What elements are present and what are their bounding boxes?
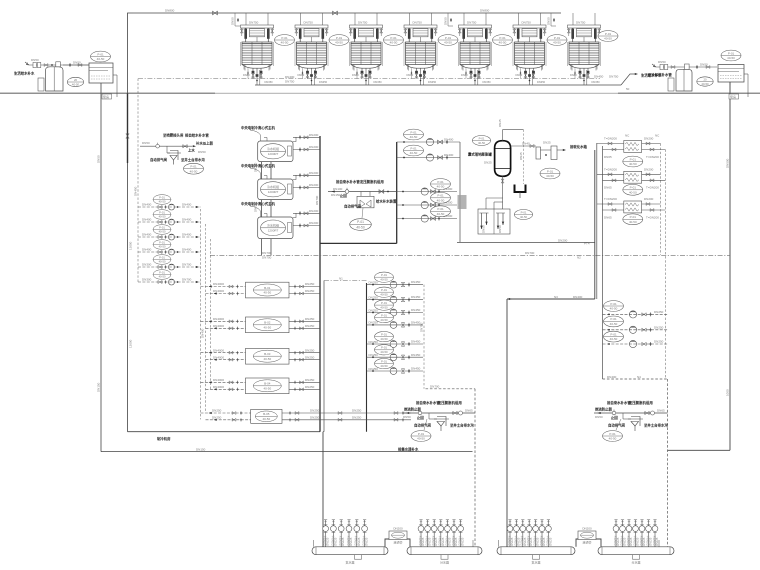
svg-text:DN250: DN250 [654,310,664,314]
pump row M6 [367,353,424,361]
svg-text:补水似上器: 补水似上器 [196,140,214,145]
svg-text:DN65: DN65 [465,409,473,413]
svg-text:囊式落地膨胀罐: 囊式落地膨胀罐 [467,152,492,157]
valve and meter right [453,411,457,414]
cooling tower CT-5 [458,13,491,85]
svg-text:DN700: DN700 [430,385,440,389]
svg-text:DN25: DN25 [484,161,492,165]
svg-text:DN300: DN300 [142,263,152,267]
svg-text:DN250: DN250 [305,282,315,286]
callout L4 [153,240,171,250]
pump row D [397,201,457,209]
svg-text:DN250: DN250 [310,415,320,419]
wire: mid pump column right dashed header [423,285,425,389]
svg-text:给水补水装置: 给水补水装置 [376,199,397,204]
valve on left riser [126,134,129,138]
svg-text:T=DN200: T=DN200 [646,155,659,159]
arrow at tower collection line end [635,73,638,75]
svg-text:DN100: DN100 [333,187,343,191]
wire: tank to riser [729,82,731,85]
salt tank right [668,78,674,91]
svg-text:生活给水补水: 生活给水补水 [641,73,662,78]
svg-text:DN450: DN450 [411,295,421,299]
wire: cooling tower return dash-dot line [138,78,600,80]
wire: machine room bottom header left [128,431,321,433]
HX B3 [246,348,290,364]
svg-text:40-50: 40-50 [263,357,271,361]
wire: soft water pipe to tank [63,64,89,66]
callout vessel [472,136,490,146]
svg-text:DN400: DN400 [182,218,192,222]
svg-text:DN300: DN300 [142,278,152,282]
callout H2 [623,184,643,195]
svg-text:DN50: DN50 [547,17,551,25]
wire: chiller U3 outlets [293,209,320,228]
wire: mid bottom link to right loop [457,241,595,243]
svg-text:DN750: DN750 [285,80,295,84]
svg-text:B-03: B-03 [264,352,271,356]
manifold M2 branch pipes [418,520,473,547]
callout CT-2 [329,35,349,46]
svg-text:自动排气阀: 自动排气阀 [344,204,362,209]
svg-text:DN50: DN50 [498,225,502,233]
callout row B [404,145,424,156]
pump row L3 [138,233,201,240]
callout soft water tank [91,51,111,62]
svg-text:DN200: DN200 [309,221,319,225]
softener tank right [676,69,692,91]
svg-text:T=DN200: T=DN200 [604,167,617,171]
svg-text:DN450: DN450 [134,186,138,196]
pump row M2 [367,295,424,303]
svg-text:接软化水箱: 接软化水箱 [570,144,588,149]
svg-text:T=DN200: T=DN200 [604,197,617,201]
svg-text:DN50: DN50 [73,61,81,65]
callout makeup [540,168,560,179]
makeup drop 3 [547,13,557,26]
svg-text:PT4: PT4 [584,242,590,246]
svg-text:B-04: B-04 [264,382,271,386]
pump row R1 [603,310,668,318]
svg-text:DN200: DN200 [393,527,403,531]
svg-text:B-02: B-02 [264,321,271,325]
svg-text:DN150: DN150 [196,448,206,452]
svg-text:DN800: DN800 [480,9,490,13]
callout L5 [153,255,171,265]
svg-text:DN700: DN700 [182,278,192,282]
wire: chilled water pump header [396,142,398,243]
svg-text:DN700: DN700 [315,195,319,205]
pump row R2 [603,325,668,333]
wire: right station riser DN500 [729,82,731,450]
svg-text:DN400: DN400 [201,328,205,338]
wire: long return dash-dot line DN700 [210,254,730,256]
svg-text:连通管: 连通管 [393,540,402,545]
wire: left tank riser DN150 [100,83,102,452]
svg-text:集水器: 集水器 [531,560,540,565]
callout row E [431,206,451,217]
svg-text:DN4000: DN4000 [213,317,224,321]
callout L2 [153,210,171,220]
callout R2 [604,316,624,327]
callout L1 [153,195,171,205]
callout row A [404,129,424,140]
svg-text:生活给水补水: 生活给水补水 [14,71,35,76]
svg-text:止回: 止回 [340,193,347,198]
svg-text:DN25: DN25 [543,141,551,145]
svg-text:40-50: 40-50 [263,326,271,330]
svg-text:至井土台排水沟: 至井土台排水沟 [450,423,474,428]
wire: manifold4 dashed feed [667,379,669,547]
svg-text:上水: 上水 [188,147,195,152]
callout L3 [153,225,171,235]
svg-text:DN250: DN250 [305,348,315,352]
svg-text:分水器: 分水器 [440,560,449,565]
svg-text:DN200: DN200 [644,167,654,171]
svg-text:DN450: DN450 [411,280,421,284]
cooling tower CT-2 [295,13,328,85]
wire: H3 right pipes [642,197,666,219]
svg-text:DN200: DN200 [644,197,654,201]
wire: makeup line [403,412,476,414]
funnel assembly 3 [168,151,182,165]
svg-text:中央电制冷离心式主机: 中央电制冷离心式主机 [241,163,276,168]
wire: makeup line 3 [140,145,193,147]
svg-text:DN400: DN400 [285,75,295,79]
wire: right bottom header [668,449,731,451]
big drain funnel [515,185,526,193]
callout H3 [623,214,643,225]
svg-text:DN400: DN400 [444,153,454,157]
svg-text:DN450: DN450 [411,308,421,312]
svg-text:N2: N2 [577,255,581,259]
callout R3 [604,331,624,342]
wire: chiller U2 outlets [293,171,320,190]
callout CT-7 [598,31,618,42]
svg-text:至井土台排水沟: 至井土台排水沟 [644,423,668,428]
svg-text:DN4000: DN4000 [213,355,224,359]
svg-text:DN250: DN250 [305,317,315,321]
callout pressurisation [350,219,372,231]
wire: makeup line 2 [594,412,668,414]
svg-text:DN200: DN200 [582,527,592,531]
svg-text:13000: 13000 [129,241,133,250]
cooling tower CT-6 [513,13,546,85]
wire: right loop horizontal to manifold feed [507,298,595,300]
svg-text:DN4000: DN4000 [213,289,224,293]
svg-text:DN50: DN50 [198,150,206,154]
manifold M3 branch pipes [499,520,553,547]
callout R1 [604,301,624,312]
chiller U3 [241,201,293,239]
svg-text:DN4000: DN4000 [213,385,224,389]
callout M5 [375,331,394,341]
callout makeup2 [603,431,623,442]
pump row M7 [367,367,424,375]
svg-text:12000: 12000 [129,339,133,348]
svg-text:倒流防止器: 倒流防止器 [594,407,613,412]
svg-text:DN250: DN250 [352,415,362,419]
wire: ground line left [0,92,760,94]
cooling tower CT-1 [240,13,273,85]
wire: vessel drain to funnel [523,130,525,184]
svg-text:止回: 止回 [611,415,618,420]
wire: H1 left pipes [597,137,624,159]
svg-text:分水器: 分水器 [631,560,640,565]
HX B2 [246,317,290,333]
funnel assembly 2 [628,417,643,432]
soft water tank [89,63,113,83]
tank outlet elbow right [744,73,748,75]
pump row L2 [138,218,201,225]
svg-text:T=DN200: T=DN200 [604,137,617,141]
pump row E [397,214,457,222]
pump row L1 [138,203,201,210]
svg-text:自动排气阀: 自动排气阀 [414,423,432,428]
wire: makeup line DN150 [328,191,397,193]
wire: cooling tower supply header DN800 [133,12,561,14]
wire: H1 right pipes [642,137,666,159]
svg-text:DN400: DN400 [142,203,152,207]
callout row C [431,179,451,190]
softener tank [46,67,64,91]
svg-text:DN50: DN50 [444,17,448,25]
svg-text:DN250: DN250 [212,409,222,413]
callout M7 [375,358,394,368]
wire: vessel side makeup [511,145,536,147]
callout CT-6 [547,35,567,46]
svg-text:泵房: 泵房 [103,94,109,99]
svg-text:40-50: 40-50 [263,387,271,391]
callout H1 [623,156,643,167]
wire: city water inlet right [656,66,717,68]
dosing pipes [482,213,504,229]
svg-text:T=DN200: T=DN200 [646,215,659,219]
svg-text:DN250: DN250 [310,409,320,413]
svg-text:DN4000: DN4000 [213,324,224,328]
svg-text:B-01: B-01 [264,286,271,290]
svg-text:DN50: DN50 [658,60,666,64]
svg-text:DN250: DN250 [305,355,315,359]
wire: vessel bottom pipes [502,176,504,209]
svg-text:DN200: DN200 [309,171,319,175]
callout CT-1 [275,35,295,46]
pump row B [397,153,460,161]
wire: H2 right pipes [642,167,666,189]
pump row C [397,187,457,195]
wire: B1 left pipes [201,282,246,295]
svg-text:DN50: DN50 [595,415,603,419]
svg-text:DN700: DN700 [262,255,272,259]
svg-text:中央电制冷离心式主机: 中央电制冷离心式主机 [241,201,276,206]
callout water meter [67,77,83,86]
svg-text:N4: N4 [637,375,641,379]
svg-text:DN800: DN800 [165,9,175,13]
svg-text:DN50: DN50 [231,17,235,25]
pump row M5 [367,340,424,348]
wire: ground line right [618,92,760,94]
svg-text:DN450: DN450 [411,353,421,357]
wire: tower collection line [255,84,621,86]
svg-text:DN400: DN400 [182,248,192,252]
manifold M1 collector [312,547,388,565]
callout M3 [375,300,394,310]
svg-text:DN500: DN500 [726,158,730,168]
wire: H2 left pipes [597,167,624,189]
wire: manifold1 feed [323,281,325,432]
svg-text:50: 50 [626,87,630,91]
wire: HX-left dashed headers [200,209,202,419]
svg-text:至喷雾接头用: 至喷雾接头用 [163,132,184,137]
chiller U1 [241,125,293,162]
wire: right pump group bottom dashed link [603,378,668,380]
svg-text:DN200: DN200 [309,209,319,213]
wire: vessel top pipe [503,130,524,141]
wire: pump rows A-B right collector [459,142,461,242]
callout M2 [375,287,394,297]
wire: bypass1 top dashed link [426,388,476,390]
pump row M3 [367,308,424,316]
funnel assembly 1 [434,417,449,432]
svg-text:至井土台排水沟: 至井土台排水沟 [181,157,205,162]
svg-text:DN250: DN250 [654,340,664,344]
callout row D [431,192,451,203]
HX H3 [624,201,642,213]
pump row L4 [138,248,201,255]
label block DN300 gray [458,195,467,209]
svg-text:DN400: DN400 [444,138,454,142]
svg-text:DN400: DN400 [142,233,152,237]
svg-text:冷水机组: 冷水机组 [267,223,279,228]
svg-text:冷水机组: 冷水机组 [267,146,279,151]
cooling tower CT-3 [349,13,382,85]
wire: B5 right pipes [282,409,411,422]
svg-text:DN65: DN65 [604,215,612,219]
callout makeup1 [411,431,431,442]
manifold M4 distributor [598,547,674,565]
svg-text:DN250: DN250 [305,385,315,389]
callout right meter [697,77,713,86]
makeup devices [536,147,541,159]
callout dosing [514,210,532,220]
manifold M1 branch pipes [314,520,369,547]
callout M4 [375,312,394,322]
wire: left dashed condenser riser [137,79,139,282]
svg-text:DN700: DN700 [525,251,535,255]
wire: B2 left pipes [201,317,246,330]
svg-text:DN700: DN700 [182,263,192,267]
wire: chiller U1 outlets [293,133,320,152]
svg-text:DN450: DN450 [594,74,604,78]
svg-text:接集水器补水: 接集水器补水 [398,446,419,451]
svg-text:DN65: DN65 [657,409,665,413]
svg-text:DN50: DN50 [142,141,150,145]
HX B1 [246,282,290,298]
wire: B4 right pipes [289,378,320,391]
pump row L6 [138,278,201,285]
svg-text:DN200: DN200 [309,183,319,187]
HX H1 [624,141,642,153]
wire: manifold 3 feed riser [506,299,508,547]
wire: chilled water supply header [319,136,321,432]
manifold M3 collector [497,547,575,565]
svg-text:DN65: DN65 [604,155,612,159]
wire: B2 right pipes [289,317,320,330]
svg-text:接自给水补水管: 接自给水补水管 [185,132,209,137]
callout M1 [375,272,394,282]
svg-text:DN4000: DN4000 [213,348,224,352]
svg-text:DN750: DN750 [609,74,619,78]
svg-text:DN250: DN250 [352,409,362,413]
pump row L5 [138,263,201,270]
wire: dash-dot jumper to secondary header [324,280,367,282]
svg-text:DN50: DN50 [403,415,411,419]
svg-text:DN400: DN400 [182,233,192,237]
svg-text:冷水机组: 冷水机组 [267,184,279,189]
manifold connector 2 [576,527,601,547]
wire: pipe to right tank [696,65,698,69]
cooling tower CT-7 [567,13,600,85]
svg-text:连通管: 连通管 [582,540,591,545]
callout CT-5 [493,35,513,46]
svg-text:1000: 1000 [726,389,730,396]
svg-text:T=DN200: T=DN200 [646,186,659,190]
svg-text:DN200: DN200 [558,238,568,242]
svg-text:DN25: DN25 [498,119,502,127]
callout CT-3 [384,35,404,46]
svg-text:DN450: DN450 [411,321,421,325]
svg-text:B-05: B-05 [263,412,270,416]
svg-text:DN40: DN40 [522,142,530,146]
salt tank [38,78,44,91]
bypass device box [360,192,362,197]
callout makeup3 [184,163,204,174]
cooling tower CT-4 [404,13,437,85]
svg-text:DN50: DN50 [482,225,486,233]
callout L6 [153,270,171,280]
svg-text:倒流防止器: 倒流防止器 [403,407,422,412]
wire: condenser header left of chillers [261,146,263,255]
wire: HX-right left headers [596,143,598,299]
svg-text:DN250: DN250 [212,415,222,419]
svg-text:接自来水补水管: 接自来水补水管 [416,400,440,405]
callout M6 [375,345,394,355]
svg-text:止回: 止回 [417,415,424,420]
svg-text:DN250: DN250 [305,324,315,328]
manifold M4 branch pipes [613,520,659,547]
soft water tank right [718,65,744,83]
HX B4 [246,378,290,394]
svg-text:制冷机房: 制冷机房 [157,436,171,441]
HX H2 [624,171,642,183]
svg-text:DN400: DN400 [573,295,583,299]
wire: right loop riser [594,150,596,299]
backflow preventer [33,62,36,67]
svg-text:DN200: DN200 [309,145,319,149]
svg-text:DN400: DN400 [142,248,152,252]
wire: city water inlet [29,64,89,66]
wire: drop to funnel [428,413,430,419]
svg-text:40-50: 40-50 [263,291,271,295]
svg-text:1200RT: 1200RT [268,229,279,233]
svg-text:DN450: DN450 [411,340,421,344]
pump row R3 [603,340,668,348]
chiller U2 [241,163,293,200]
svg-text:1200RT: 1200RT [268,152,279,156]
svg-text:自动排气阀: 自动排气阀 [608,423,626,428]
pump row M1 [367,280,424,288]
HX B5 small [251,409,282,423]
